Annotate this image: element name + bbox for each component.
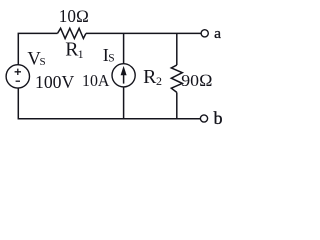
voltage source Vs circle (6, 65, 29, 88)
resistor R1 (58, 28, 86, 38)
wire R2 branch upper (176, 33, 178, 65)
svg-text:b: b (214, 108, 223, 128)
current source arrow shaft (123, 72, 125, 84)
svg-text:90Ω: 90Ω (181, 71, 212, 90)
terminal a circle (201, 30, 208, 37)
wire R1 to terminal a (86, 32, 201, 34)
wire left vertical lower and bottom (18, 88, 200, 119)
wire top-left to R1 (18, 33, 57, 64)
terminal b circle (200, 115, 207, 122)
svg-text:100V: 100V (35, 72, 74, 92)
svg-text:10A: 10A (82, 71, 110, 90)
svg-text:R1: R1 (65, 39, 83, 62)
svg-text:a: a (214, 25, 221, 42)
resistor R2 (171, 65, 182, 92)
wire current source branch lower (123, 87, 125, 119)
current source arrowhead (121, 66, 127, 75)
plus sign (15, 69, 21, 75)
minus sign (16, 80, 20, 82)
svg-text:R2: R2 (143, 66, 162, 88)
wire R2 branch lower (176, 92, 178, 118)
svg-text:IS: IS (103, 45, 115, 65)
wire current source branch upper (123, 33, 125, 63)
svg-text:10Ω: 10Ω (59, 6, 89, 26)
svg-text:VS: VS (27, 49, 45, 70)
current source Is circle (112, 64, 135, 87)
